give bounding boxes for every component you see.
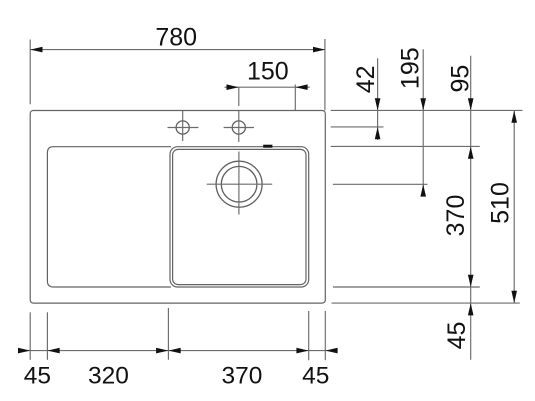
dimension 150 right arrow — [295, 84, 307, 90]
bottom dimension 45-320 shared arrow — [48, 348, 60, 354]
dimension 195 bottom arrow — [420, 184, 426, 196]
bottom extension rim left — [46, 312, 48, 360]
dimension 510 line — [513, 111, 515, 304]
drain outer circle — [216, 161, 262, 207]
sink outer edge — [30, 111, 325, 304]
centerline segment through drain — [238, 152, 240, 215]
bottom extension sink left edge — [29, 312, 31, 360]
bottom dimension 370 left arrow — [169, 348, 181, 354]
dimension 42 line — [377, 58, 379, 140]
dimension 42 bottom arrow — [375, 127, 381, 139]
tap hole extension line — [331, 126, 384, 128]
bottom extension bowl left — [167, 308, 169, 360]
bottom dimension 45 left arrow — [18, 348, 30, 354]
svg-text:370: 370 — [222, 362, 263, 389]
dimension 42 top arrow — [375, 98, 381, 110]
dimension 95-370 shared arrow — [468, 147, 474, 159]
tap hole 1 — [176, 121, 189, 134]
svg-text:370: 370 — [442, 195, 470, 237]
svg-text:45: 45 — [302, 362, 329, 389]
tap hole 1 centerline horizontal — [168, 127, 199, 129]
dimension 510 bottom arrow — [511, 291, 517, 303]
tap hole 1 centerline vertical — [182, 111, 184, 141]
bottom dimension line — [19, 350, 338, 352]
dimension 510 top arrow — [511, 111, 517, 123]
bowl inner edge — [173, 149, 306, 284]
sink inner rim contour (drainer area) — [47, 147, 171, 287]
centerline segment above sink edge — [238, 87, 240, 106]
overflow mark — [263, 145, 272, 148]
dimension 780 right arrow — [313, 47, 325, 53]
tap hole 2 centerline horizontal — [224, 127, 254, 129]
bottom dimension 45 right arrow — [325, 348, 337, 354]
dimension 95-370-45 line — [470, 56, 472, 360]
dimension 780 right extension — [324, 39, 326, 110]
dimension 45 right arrow — [468, 303, 474, 315]
svg-text:510: 510 — [486, 182, 514, 224]
dimension 195 line — [422, 49, 424, 196]
svg-text:45: 45 — [24, 362, 51, 389]
svg-text:195: 195 — [397, 47, 425, 89]
svg-text:780: 780 — [155, 24, 197, 52]
bowl top extension line — [331, 145, 480, 147]
svg-text:150: 150 — [247, 58, 289, 86]
dimension 150 left arrow — [227, 84, 239, 90]
bottom extension bowl right — [308, 311, 310, 360]
sink top edge extension line — [331, 109, 523, 111]
dimension 370 bottom arrow — [468, 275, 474, 287]
svg-text:320: 320 — [88, 362, 129, 389]
svg-text:95: 95 — [446, 65, 474, 93]
centerline segment through tap hole 2 — [238, 111, 240, 142]
drain inner circle — [221, 166, 257, 202]
dimension 195 top arrow — [420, 98, 426, 110]
dimension 150 right extension — [294, 85, 296, 111]
bowl bottom extension line — [333, 286, 480, 288]
tap hole 2 — [232, 121, 245, 134]
dimension 780 line — [30, 49, 325, 51]
drain center extension line — [333, 183, 428, 185]
dimension 150 line — [225, 86, 310, 88]
sink bottom edge extension line — [332, 302, 520, 304]
bottom extension sink right edge — [324, 311, 326, 360]
bottom dimension 320 right arrow — [156, 348, 168, 354]
bottom dimension 370 right arrow — [296, 348, 308, 354]
dimension 780 left arrow — [30, 47, 42, 53]
dimension 780 left extension — [29, 40, 31, 105]
bowl outer edge — [170, 147, 309, 287]
dimension 95 top arrow — [468, 98, 474, 110]
drain centerline horizontal — [207, 183, 273, 185]
svg-text:45: 45 — [443, 322, 471, 350]
svg-text:42: 42 — [352, 65, 380, 93]
